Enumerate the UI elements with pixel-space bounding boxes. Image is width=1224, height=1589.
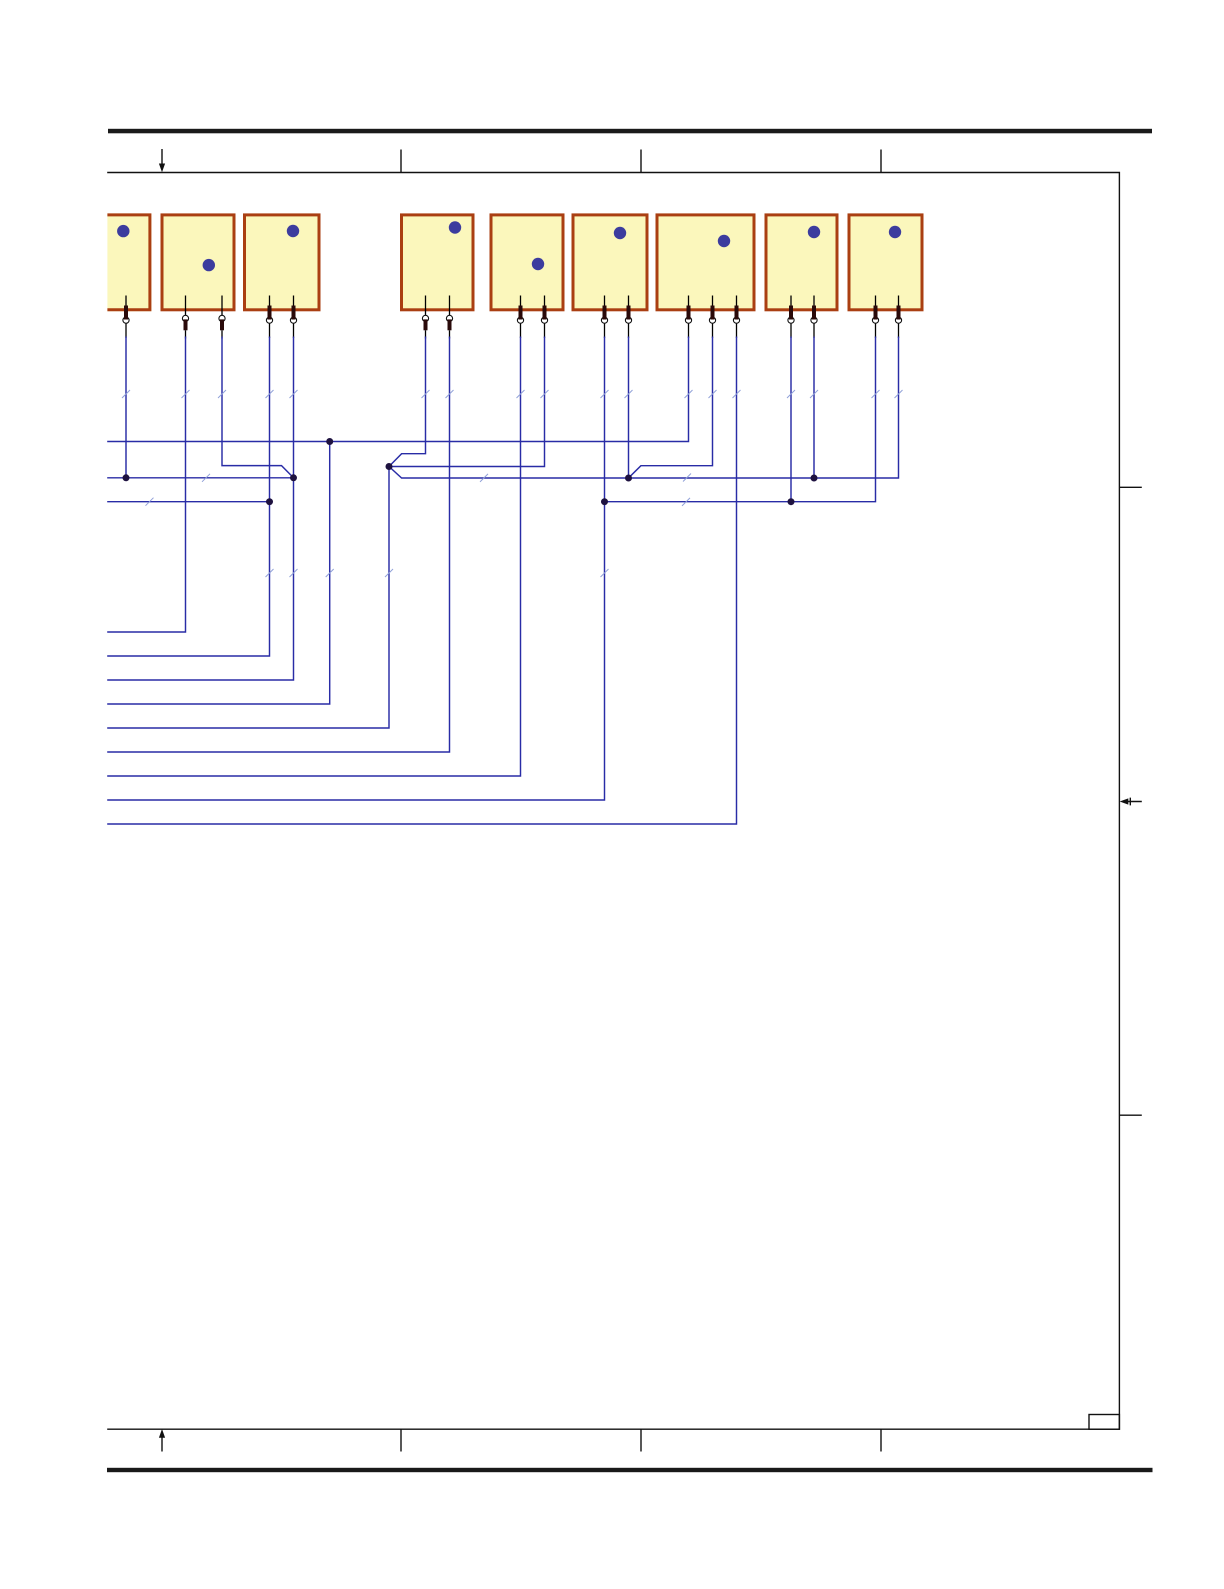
wire net5 from pin M8-2 down to junction I bbox=[813, 337, 815, 479]
wire net3 from pin M3-1 down through junction C and left off page bbox=[107, 337, 269, 657]
wire net2 horizontal run off page left through junction A to junction B bbox=[107, 477, 293, 479]
wire net4 branch from junction D down and left off page bbox=[107, 442, 330, 705]
module box M2 bbox=[162, 215, 234, 310]
inline connector pin M5-2 bbox=[541, 296, 547, 339]
inline connector pin M1-1 bbox=[123, 296, 129, 339]
pin-1 marker dot M9 bbox=[889, 226, 901, 238]
inline connector pin M8-1 bbox=[788, 296, 794, 339]
wire net6 from pin M4-2 down and left off page bbox=[107, 337, 449, 753]
module box M1 (cut at page edge) bbox=[107, 213, 151, 311]
wire net8 from pin M8-1 down to junction H bbox=[790, 337, 792, 502]
wire net8 from pin M9-1 left through junction H to junction F bbox=[605, 337, 876, 502]
module box M3 bbox=[245, 215, 320, 310]
wire net5 from pin M7-2 with 45-deg jog to junction G bbox=[629, 337, 713, 479]
wire net5 from pin M9-2 left through junctions I and G with 45-deg jog to junction E bbox=[389, 337, 899, 479]
pin-1 marker dot M5 bbox=[532, 258, 544, 270]
pin-1 marker dot M6 bbox=[614, 227, 626, 239]
junction C net3 bbox=[266, 498, 273, 505]
pin-1 marker dot M7 bbox=[718, 235, 730, 247]
wire net7 from pin M5-1 down and left off page bbox=[107, 337, 520, 777]
junction A net2 bbox=[123, 474, 130, 481]
module box M8 bbox=[766, 215, 837, 310]
junction G net5 bbox=[625, 475, 632, 482]
wire net5 from pin M4-1 with 45-deg jog to junction E bbox=[389, 337, 426, 467]
pin-1 marker dot M8 bbox=[808, 226, 820, 238]
pin-1 marker dot M1 bbox=[117, 225, 129, 237]
inline connector pin M7-2 bbox=[709, 296, 715, 339]
wire net2 from pin M1-1 down to junction A bbox=[125, 337, 127, 478]
wire net4 from pin M7-1 left through junction D off page bbox=[107, 337, 688, 442]
junction B net2 bbox=[290, 474, 297, 481]
inline connector pin M4-1 bbox=[422, 296, 428, 339]
junction D net4 bbox=[326, 438, 333, 445]
inline connector pin M4-2 bbox=[446, 296, 452, 339]
inline connector pin M3-1 bbox=[266, 296, 272, 339]
inline connector pin M7-3 bbox=[733, 296, 739, 339]
wire net8 from pin M6-1 down through junction F and left off page bbox=[107, 337, 604, 801]
wire net1 from pin M2-1 down and left off page bbox=[107, 337, 185, 633]
pin-1 marker dot M4 bbox=[449, 221, 461, 233]
inline connector pin M3-2 bbox=[290, 296, 296, 339]
module box M5 bbox=[491, 215, 563, 310]
junction H net8 bbox=[788, 498, 795, 505]
module box M6 bbox=[573, 215, 647, 310]
inline connector pin M8-2 bbox=[811, 296, 817, 339]
inline connector pin M2-1 bbox=[182, 296, 188, 339]
inline connector pin M9-2 bbox=[895, 296, 901, 339]
inline connector pin M2-2 bbox=[219, 296, 225, 339]
inline connector pin M6-2 bbox=[625, 296, 631, 339]
wire net9 from pin M7-3 down and left off page bbox=[107, 337, 736, 825]
junction E net5 bbox=[386, 463, 393, 470]
module box M7 bbox=[657, 215, 754, 310]
wire net3 horizontal run off page left to junction C bbox=[107, 501, 269, 503]
module box M9 bbox=[849, 215, 922, 310]
inline connector pin M7-1 bbox=[685, 296, 691, 339]
inline connector pin M9-1 bbox=[872, 296, 878, 339]
wire net5 from pin M5-2 to junction E bbox=[389, 337, 545, 467]
wire net2 from pin M2-2 down with 45-deg jog to junction B bbox=[222, 337, 294, 478]
wire net2 from pin M3-2 down through junction B and left off page bbox=[107, 337, 293, 681]
junction I net5 bbox=[811, 475, 818, 482]
wire net5 from pin M6-2 down to junction G bbox=[628, 337, 630, 479]
wire net5 branch from junction E down and left off page bbox=[107, 467, 389, 729]
net continuation slash marks bbox=[122, 390, 903, 577]
inline connector pin M6-1 bbox=[601, 296, 607, 339]
module box M4 bbox=[402, 215, 474, 310]
pin-1 marker dot M2 bbox=[203, 259, 215, 271]
pin-1 marker dot M3 bbox=[287, 225, 299, 237]
junction F net8 bbox=[601, 498, 608, 505]
inline connector pin M5-1 bbox=[517, 296, 523, 339]
